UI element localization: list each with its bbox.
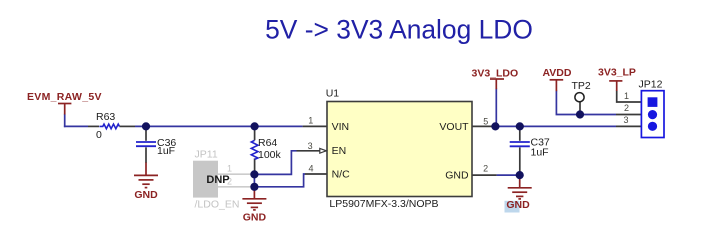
svg-text:R63: R63 (96, 111, 115, 123)
svg-text:JP11: JP11 (195, 148, 218, 160)
svg-text:AVDD: AVDD (543, 67, 572, 79)
svg-text:TP2: TP2 (572, 80, 591, 92)
svg-text:1uF: 1uF (531, 146, 549, 158)
svg-text:EVM_RAW_5V: EVM_RAW_5V (27, 91, 102, 103)
svg-text:1: 1 (227, 164, 232, 174)
svg-text:0: 0 (96, 129, 102, 141)
svg-text:1: 1 (308, 115, 313, 125)
svg-text:5: 5 (483, 117, 488, 127)
svg-text:GND: GND (134, 189, 158, 201)
svg-text:GND: GND (243, 211, 267, 223)
svg-text:GND: GND (506, 199, 530, 211)
svg-text:4: 4 (308, 164, 313, 174)
svg-text:JP12: JP12 (639, 79, 663, 91)
svg-text:2: 2 (624, 103, 629, 113)
svg-text:DNP: DNP (206, 174, 229, 186)
svg-text:GND: GND (445, 170, 469, 182)
svg-text:EN: EN (332, 145, 347, 157)
svg-text:/LDO_EN: /LDO_EN (195, 199, 240, 211)
svg-text:3V3_LDO: 3V3_LDO (472, 68, 519, 80)
svg-text:R64: R64 (258, 137, 277, 149)
svg-text:1: 1 (624, 91, 629, 101)
svg-text:100k: 100k (258, 149, 282, 161)
svg-text:VOUT: VOUT (439, 121, 469, 133)
svg-text:3: 3 (623, 115, 628, 125)
svg-text:VIN: VIN (332, 121, 350, 133)
svg-text:N/C: N/C (332, 168, 351, 180)
svg-text:3: 3 (308, 141, 313, 151)
svg-text:LP5907MFX-3.3/NOPB: LP5907MFX-3.3/NOPB (329, 198, 438, 210)
svg-text:2: 2 (483, 163, 488, 173)
svg-text:5V -> 3V3 Analog LDO: 5V -> 3V3 Analog LDO (265, 15, 533, 45)
svg-text:1uF: 1uF (157, 145, 175, 157)
svg-text:3V3_LP: 3V3_LP (598, 67, 636, 79)
svg-text:U1: U1 (326, 88, 340, 100)
